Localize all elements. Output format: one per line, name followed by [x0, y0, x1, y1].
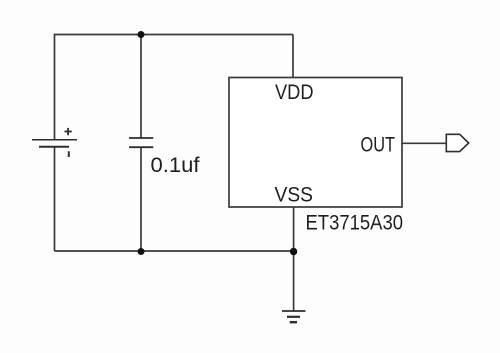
svg-text:0.1uf: 0.1uf	[151, 154, 200, 177]
svg-text:VSS: VSS	[275, 184, 314, 207]
svg-text:ET3715A30: ET3715A30	[306, 211, 404, 234]
svg-text:OUT: OUT	[361, 134, 396, 157]
svg-text:VDD: VDD	[275, 81, 314, 104]
